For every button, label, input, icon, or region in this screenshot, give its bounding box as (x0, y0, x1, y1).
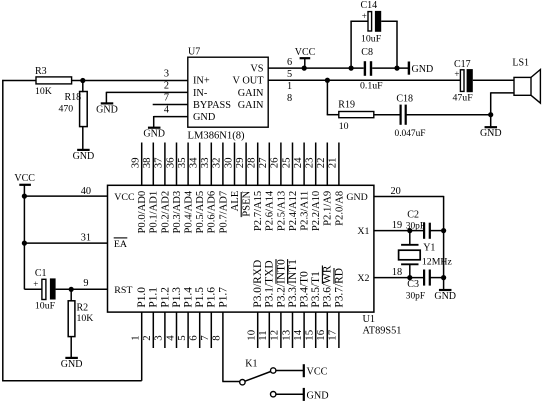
svg-text:P3.3/INT1: P3.3/INT1 (287, 259, 299, 308)
resistor R18 (59, 81, 88, 150)
svg-text:14: 14 (292, 329, 304, 340)
svg-text:R19: R19 (338, 100, 355, 111)
pin 28 P2.7/A15 (246, 143, 265, 232)
svg-text:P2.2/A10: P2.2/A10 (311, 191, 322, 231)
speaker LS1 (512, 58, 540, 104)
svg-text:38: 38 (141, 158, 153, 169)
svg-text:GND: GND (73, 151, 95, 162)
svg-text:P2.0/A8: P2.0/A8 (334, 191, 345, 226)
svg-text:2: 2 (141, 335, 153, 340)
resistor R19 (338, 100, 400, 132)
svg-text:IN-: IN- (193, 88, 208, 99)
pin 2 P1.1 (141, 287, 160, 348)
svg-text:47uF: 47uF (453, 92, 474, 103)
svg-text:P1.3: P1.3 (171, 287, 183, 308)
svg-text:C1: C1 (35, 268, 47, 279)
crystal Y1 (399, 242, 453, 277)
svg-text:P0.3/AD3: P0.3/AD3 (172, 191, 183, 234)
svg-text:+: + (454, 69, 459, 79)
svg-text:P1.7: P1.7 (217, 287, 229, 308)
svg-text:P1.6: P1.6 (206, 287, 218, 308)
svg-text:P0.6/AD6: P0.6/AD6 (207, 191, 218, 234)
svg-text:26: 26 (269, 157, 281, 168)
pin 8 P1.7 (211, 287, 230, 382)
wire V OUT net (268, 79, 461, 81)
capacitor C17 (453, 59, 515, 103)
svg-text:7: 7 (164, 93, 169, 104)
svg-text:20: 20 (391, 186, 401, 197)
pin 18 X2 (357, 267, 423, 284)
ground at U7 pin4 (143, 128, 165, 140)
svg-text:23: 23 (304, 158, 316, 169)
svg-text:P3.0/RXD: P3.0/RXD (252, 260, 264, 308)
svg-text:P3.1/TXD: P3.1/TXD (264, 260, 276, 307)
svg-text:6: 6 (287, 57, 292, 68)
svg-text:10K: 10K (77, 313, 94, 324)
svg-text:6: 6 (188, 335, 200, 341)
svg-text:GND: GND (61, 359, 83, 370)
svg-text:P2.7/A15: P2.7/A15 (253, 191, 264, 231)
svg-text:GND: GND (307, 390, 329, 401)
svg-text:8: 8 (287, 93, 292, 104)
junction C14 right (394, 66, 399, 71)
svg-text:P1.5: P1.5 (194, 287, 206, 308)
ground at IN- (96, 103, 118, 115)
wire node to IN+ (83, 80, 189, 82)
pin 29 PSEN (234, 143, 253, 218)
svg-text:GND: GND (412, 64, 434, 75)
svg-text:P0.7/AD7: P0.7/AD7 (218, 191, 229, 234)
wire GND rail (443, 196, 445, 290)
svg-text:10uF: 10uF (361, 34, 382, 45)
pin 16 P3.6/WR (315, 265, 334, 348)
svg-text:VS: VS (250, 64, 263, 75)
pin 11 P3.1/TXD (257, 260, 276, 348)
svg-text:13: 13 (280, 330, 292, 341)
terminal VCC at K1 (276, 364, 328, 377)
resistor R2 (68, 289, 93, 358)
svg-text:4: 4 (164, 105, 169, 116)
svg-text:P0.4/AD4: P0.4/AD4 (184, 190, 195, 233)
wire left rail (2, 80, 142, 382)
pin 39 P0.0/AD0 (130, 143, 149, 234)
pin 34 P0.5/AD5 (188, 143, 207, 234)
svg-text:11: 11 (257, 330, 269, 340)
pin number 7 (164, 93, 169, 104)
pin 32 P0.7/AD7 (211, 143, 230, 234)
svg-text:17: 17 (327, 329, 339, 340)
svg-text:470: 470 (59, 104, 74, 115)
svg-text:P3.6/WR: P3.6/WR (322, 265, 334, 307)
pin 12 P3.2/INT0 (269, 259, 288, 348)
pin 30 ALE (222, 143, 241, 212)
svg-text:V OUT: V OUT (233, 76, 265, 87)
capacitor C3 (406, 270, 444, 302)
svg-text:VCC: VCC (307, 367, 328, 378)
pin 24 P2.3/A11 (292, 143, 311, 231)
junction R3/R18/IN+ (80, 78, 85, 83)
svg-text:P2.4/A12: P2.4/A12 (288, 191, 299, 231)
pin number 2 (164, 81, 169, 92)
terminal GND at K1 (276, 388, 329, 401)
pin 19 X1 (357, 220, 423, 237)
op-amp U7 LM386 (188, 57, 268, 127)
svg-text:33: 33 (199, 158, 211, 169)
svg-text:10: 10 (339, 121, 349, 132)
pin 4 P1.3 (164, 287, 183, 348)
wire speaker return (491, 92, 514, 127)
resistor R3 (2, 66, 84, 97)
svg-text:C8: C8 (361, 47, 373, 58)
pin 26 P2.5/A13 (269, 143, 288, 232)
svg-text:U1: U1 (363, 314, 376, 325)
ground below R2 (61, 358, 83, 370)
svg-text:P3.4/T0: P3.4/T0 (299, 271, 311, 308)
svg-text:C2: C2 (407, 209, 419, 220)
wire P1.7 to K1 (222, 381, 240, 383)
svg-text:X2: X2 (357, 273, 369, 284)
svg-text:P2.3/A11: P2.3/A11 (300, 191, 311, 231)
capacitor C2 (406, 209, 444, 239)
pin 40 VCC (24, 186, 135, 203)
svg-text:39: 39 (130, 158, 142, 169)
svg-text:27: 27 (257, 157, 269, 168)
pin 1 P1.0 (130, 287, 149, 381)
svg-text:PSEN: PSEN (242, 190, 253, 216)
pin 37 P0.2/AD2 (153, 143, 172, 234)
svg-text:31: 31 (81, 232, 91, 243)
svg-text:7: 7 (199, 335, 211, 341)
svg-text:1: 1 (130, 335, 142, 340)
svg-text:+: + (33, 279, 38, 289)
svg-text:P2.6/A14: P2.6/A14 (265, 190, 276, 231)
svg-text:5: 5 (176, 335, 188, 340)
svg-text:4: 4 (164, 335, 176, 341)
svg-text:30pF: 30pF (406, 222, 425, 232)
ground below R18 (73, 150, 95, 162)
junction rail C2 (441, 228, 446, 233)
pin number 1 (287, 81, 292, 92)
wire to R19 (327, 80, 339, 114)
svg-text:P1.2: P1.2 (159, 287, 171, 308)
pin 10 P3.0/RXD (246, 260, 265, 348)
svg-text:P0.5/AD5: P0.5/AD5 (195, 191, 206, 234)
svg-text:2: 2 (164, 81, 169, 92)
wire VCC rail down (24, 196, 42, 289)
label U7 (188, 47, 200, 58)
svg-text:22: 22 (315, 158, 327, 169)
pin 22 P2.1/A9 (315, 143, 334, 226)
pin number 6 (287, 57, 292, 68)
pin 23 P2.2/A10 (304, 143, 323, 232)
svg-text:+: + (362, 11, 367, 21)
pin number 5 (287, 69, 292, 80)
svg-text:IN+: IN+ (193, 76, 210, 87)
svg-text:34: 34 (188, 157, 200, 168)
junction R19 branch (325, 78, 330, 83)
svg-text:GND: GND (96, 105, 118, 116)
svg-text:32: 32 (211, 158, 223, 169)
pin 15 P3.5/T1 (304, 271, 323, 348)
svg-text:3: 3 (153, 335, 165, 340)
pin 35 P0.4/AD4 (176, 143, 195, 234)
svg-text:GND: GND (346, 192, 367, 203)
svg-text:40: 40 (81, 186, 91, 197)
svg-text:P3.2/INT0: P3.2/INT0 (275, 259, 287, 308)
svg-text:U7: U7 (188, 47, 200, 58)
svg-text:25: 25 (280, 158, 292, 169)
capacitor C14 (350, 0, 397, 68)
switch K1 (240, 359, 276, 397)
pin number 4 (164, 105, 169, 116)
junction speaker/C18 (488, 112, 493, 117)
svg-text:GAIN: GAIN (238, 88, 264, 99)
svg-text:K1: K1 (245, 359, 257, 370)
junction VCC on VS (302, 66, 307, 71)
ground below speaker (480, 127, 502, 139)
junction C14 left (349, 66, 354, 71)
svg-text:5: 5 (287, 69, 292, 80)
svg-text:12MHz: 12MHz (422, 256, 453, 267)
wire BYPASS stub (153, 104, 189, 106)
svg-text:1: 1 (287, 81, 292, 92)
svg-text:BYPASS: BYPASS (193, 100, 231, 111)
junction X2 (407, 275, 412, 280)
pin 36 P0.3/AD3 (164, 143, 183, 234)
pin 5 P1.4 (176, 287, 195, 348)
capacitor C1 (33, 268, 107, 311)
power VCC at U7 (295, 47, 316, 68)
svg-text:36: 36 (164, 157, 176, 168)
pin 21 P2.0/A8 (327, 143, 346, 226)
pin 20 GND (346, 186, 443, 203)
svg-text:VCC: VCC (114, 192, 135, 203)
svg-text:10K: 10K (35, 86, 52, 97)
pin 13 P3.3/INT1 (280, 259, 299, 348)
svg-text:EA: EA (114, 239, 128, 250)
svg-text:R2: R2 (77, 302, 89, 313)
svg-text:10: 10 (246, 330, 258, 341)
svg-text:P2.1/A9: P2.1/A9 (323, 191, 334, 226)
svg-text:C14: C14 (361, 0, 378, 11)
svg-text:18: 18 (392, 267, 402, 278)
svg-text:R3: R3 (35, 66, 47, 77)
ground terminal VS net (409, 62, 433, 76)
pin 33 P0.6/AD6 (199, 143, 218, 234)
svg-text:P3.5/T1: P3.5/T1 (310, 271, 322, 308)
svg-text:P0.0/AD0: P0.0/AD0 (137, 191, 148, 234)
svg-text:ALE: ALE (230, 191, 241, 212)
svg-text:P3.7/RD: P3.7/RD (333, 268, 345, 308)
svg-text:10uF: 10uF (35, 301, 56, 312)
svg-text:3: 3 (164, 68, 169, 79)
svg-text:35: 35 (176, 158, 188, 169)
label AT89S51 (363, 326, 402, 337)
svg-text:29: 29 (234, 158, 246, 169)
svg-text:R18: R18 (65, 92, 82, 103)
svg-text:19: 19 (392, 220, 402, 231)
svg-text:9: 9 (83, 278, 88, 289)
svg-text:LS1: LS1 (512, 58, 529, 69)
svg-text:GND: GND (480, 128, 502, 139)
svg-text:X1: X1 (357, 226, 369, 237)
pin 3 P1.2 (153, 287, 172, 348)
junction pin40 (22, 194, 27, 199)
svg-text:0.047uF: 0.047uF (395, 129, 426, 139)
svg-text:16: 16 (315, 329, 327, 340)
capacitor C8 (360, 47, 383, 91)
svg-text:P0.2/AD2: P0.2/AD2 (160, 191, 171, 234)
junction rail C3 (441, 275, 446, 280)
svg-text:VCC: VCC (14, 173, 35, 184)
svg-text:C18: C18 (396, 93, 413, 104)
svg-text:VCC: VCC (295, 47, 316, 58)
junction pin31 (22, 241, 27, 246)
svg-text:P1.4: P1.4 (183, 287, 195, 308)
svg-text:0.1uF: 0.1uF (360, 80, 383, 91)
wire GND pin 4 (154, 116, 189, 128)
svg-text:GND: GND (434, 291, 456, 302)
svg-text:30: 30 (222, 158, 234, 169)
svg-text:P0.1/AD1: P0.1/AD1 (149, 191, 160, 234)
svg-text:30pF: 30pF (406, 291, 425, 301)
junction RST/R2 (69, 287, 74, 292)
pin 6 P1.5 (188, 287, 207, 348)
svg-text:15: 15 (304, 330, 316, 341)
svg-text:LM386N1(8): LM386N1(8) (188, 131, 246, 142)
svg-text:37: 37 (153, 157, 165, 168)
wire VS net (268, 67, 409, 69)
svg-text:12: 12 (269, 330, 281, 341)
svg-text:GND: GND (193, 112, 216, 123)
label U1 (363, 314, 376, 325)
svg-text:21: 21 (327, 158, 339, 169)
svg-text:24: 24 (292, 157, 304, 168)
svg-text:RST: RST (114, 285, 132, 296)
svg-text:28: 28 (246, 158, 258, 169)
capacitor C18 (395, 93, 492, 139)
mcu U1 AT89S51 body (108, 185, 374, 312)
wire IN- to ground (106, 92, 188, 104)
svg-text:P1.1: P1.1 (148, 287, 160, 308)
pin number 8 (287, 93, 292, 104)
svg-text:GAIN: GAIN (238, 100, 264, 111)
svg-text:GND: GND (143, 129, 165, 140)
wire X1 node (409, 231, 411, 245)
svg-text:C3: C3 (407, 279, 419, 290)
svg-text:Y1: Y1 (423, 242, 435, 253)
ground crystal (434, 290, 456, 302)
pin 25 P2.4/A12 (280, 143, 299, 232)
pin 9 RST (56, 278, 133, 296)
pin 38 P0.1/AD1 (141, 143, 160, 234)
pin 31 EA (24, 232, 128, 250)
svg-text:P2.5/A13: P2.5/A13 (276, 191, 287, 231)
pin 17 P3.7/RD (327, 268, 346, 348)
svg-text:8: 8 (211, 335, 223, 340)
svg-text:AT89S51: AT89S51 (363, 326, 402, 337)
pin 27 P2.6/A14 (257, 143, 276, 232)
pin 14 P3.4/T0 (292, 271, 311, 348)
label LM386N1(8) (188, 131, 246, 142)
junction X1 (407, 228, 412, 233)
svg-text:P1.0: P1.0 (136, 287, 148, 308)
power VCC left (14, 173, 35, 196)
pin number 3 (164, 68, 169, 79)
pin 7 P1.6 (199, 287, 218, 348)
